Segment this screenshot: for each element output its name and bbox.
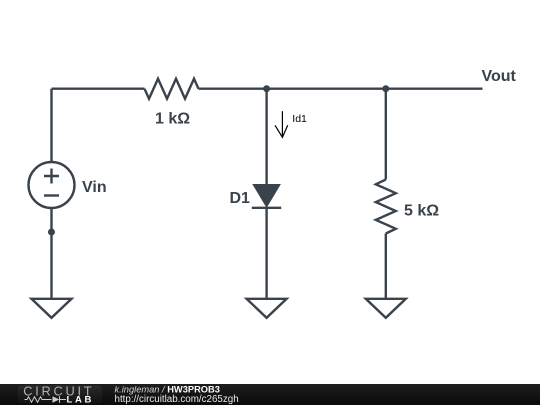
wire: top horizontal left segment <box>52 87 145 89</box>
wire: source bottom to ground <box>50 208 52 299</box>
wire: 5k branch bottom <box>385 234 387 300</box>
wire: 5k branch top <box>385 89 387 180</box>
current arrow Id1 <box>275 111 288 137</box>
plus sign of source <box>44 169 59 184</box>
minus sign of source <box>44 194 59 196</box>
svg-text:Vin: Vin <box>82 179 107 196</box>
svg-text:D1: D1 <box>230 190 251 207</box>
svg-text:5 kΩ: 5 kΩ <box>404 202 439 219</box>
svg-text:LAB: LAB <box>67 394 93 405</box>
svg-text:http://circuitlab.com/c265zgh: http://circuitlab.com/c265zgh <box>115 394 239 405</box>
footer logo panel <box>18 386 102 404</box>
svg-text:Vout: Vout <box>482 68 517 85</box>
junction node below source <box>48 229 55 236</box>
ground symbol left <box>32 299 72 318</box>
logo diode triangle <box>53 396 60 403</box>
ground symbol right <box>366 299 406 318</box>
wire: diode branch top <box>265 89 267 185</box>
resistor R1 1k zigzag <box>145 79 199 99</box>
svg-text:Id1: Id1 <box>292 113 307 125</box>
voltage source V1 circle <box>29 162 75 208</box>
resistor R2 5k zigzag <box>376 180 396 234</box>
junction node at 5k branch <box>382 85 389 92</box>
svg-text:1 kΩ: 1 kΩ <box>155 110 190 127</box>
wire: diode branch bottom <box>265 208 267 299</box>
diode D1 cathode bar <box>252 207 281 209</box>
wire: source top to corner <box>50 89 52 162</box>
wire: top horizontal right segment <box>199 87 483 89</box>
ground symbol middle <box>247 299 287 318</box>
diode D1 triangle <box>254 185 280 207</box>
logo resistor squiggle and diode <box>25 396 67 402</box>
junction node at diode branch <box>263 85 270 92</box>
